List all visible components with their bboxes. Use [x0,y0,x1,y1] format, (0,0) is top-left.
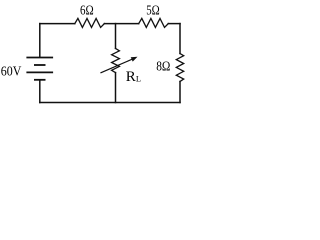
arrowhead of RL arrow [131,57,138,62]
arrow of variable resistor RL [101,59,133,73]
battery V1 plate long top [27,57,52,59]
svg-text:8Ω: 8Ω [156,60,170,75]
wire top-left segment [40,23,75,25]
resistor RL zigzag [112,48,120,72]
wire top-right segment [168,23,180,25]
battery V1 plate long bottom [27,71,52,73]
resistor 6ohm [75,18,105,27]
wire middle-top (junction to RL) [115,24,117,49]
wire right-bottom (8ohm to bottom wire) [179,82,181,103]
resistor 8ohm [176,54,183,82]
wire right-top (corner to 8ohm) [179,24,181,54]
battery V1 plate short [35,64,45,66]
resistor 5ohm [139,18,169,27]
svg-text:6Ω: 6Ω [80,3,94,18]
wire bottom [40,102,180,104]
svg-text:RL: RL [126,69,141,85]
wire top-middle segment [104,23,138,25]
svg-text:60V: 60V [1,64,22,79]
wire middle-bottom (RL to bottom wire) [115,73,117,103]
svg-text:5Ω: 5Ω [146,3,160,18]
wire left-top (battery to top wire) [39,24,41,57]
wire left-bottom (battery to bottom wire) [39,81,41,103]
battery V1 plate short bottom [35,79,45,81]
